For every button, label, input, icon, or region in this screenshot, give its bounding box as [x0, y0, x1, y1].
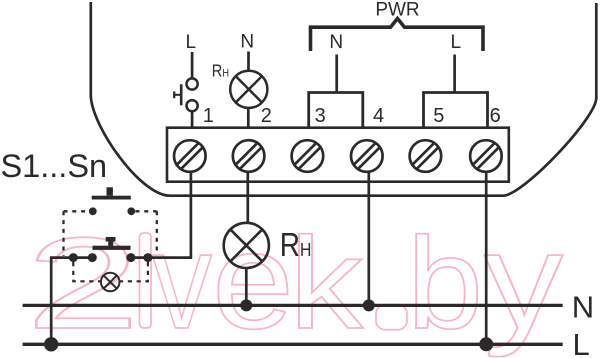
- push-button at terminal 1: cap: [173, 91, 175, 98]
- junction dot lamp tap left: [69, 253, 78, 262]
- push-button at terminal 1: bottom contact: [187, 100, 198, 111]
- terminal block: [167, 128, 509, 182]
- junction dot terminal 4 to N: [363, 299, 375, 311]
- push-button Sn: bridge bar: [93, 246, 131, 250]
- push-button Sn: left contact: [88, 253, 97, 262]
- push-button Sn: stem: [108, 242, 113, 246]
- svg-text:4: 4: [373, 105, 384, 127]
- N bus line: [23, 304, 563, 307]
- push-button at terminal 1: stem: [174, 94, 180, 96]
- svg-text:5: 5: [433, 105, 444, 127]
- svg-text:b: b: [407, 210, 483, 356]
- push-button S1: bridge bar: [92, 196, 131, 200]
- svg-text:3: 3: [315, 105, 326, 127]
- lamp Rн main: [224, 223, 269, 268]
- push-button S1: left contact: [89, 207, 97, 215]
- junction dot lamp tap right: [143, 253, 152, 262]
- push-button S1: stem: [107, 187, 113, 195]
- terminal screw 2: [233, 140, 265, 172]
- PWR bracket: [311, 19, 484, 52]
- svg-text:S1...Sn: S1...Sn: [1, 148, 108, 184]
- L bus line: [23, 343, 563, 346]
- svg-text:N: N: [240, 32, 254, 53]
- svg-text:y: y: [484, 204, 563, 358]
- wire terminal 2 to lamp: [246, 172, 249, 223]
- junction dot terminal 6 to L: [479, 337, 493, 351]
- wire button to terminal 1: [191, 111, 194, 127]
- svg-text:L: L: [573, 327, 590, 358]
- svg-text:2: 2: [26, 210, 140, 356]
- terminal screw 6: [470, 140, 502, 172]
- svg-text:L: L: [186, 32, 197, 53]
- wire N to link 3-4: [335, 55, 338, 93]
- junction dot S branch to L: [44, 337, 58, 351]
- push-button Sn: cap: [106, 237, 116, 242]
- dashed group box S1...Sn top edge: [64, 210, 157, 212]
- dashed group box right edge: [156, 211, 158, 251]
- indicator lamp in button: [101, 273, 120, 292]
- dashed lamp tap left: [73, 262, 101, 281]
- junction dot lamp to N: [240, 299, 252, 311]
- link box terminals 3-4: [309, 93, 363, 128]
- link box terminals 5-6: [424, 93, 488, 128]
- svg-text:N: N: [572, 290, 594, 325]
- wire terminal 6 to L bus: [485, 172, 488, 344]
- push-button S1: right contact: [127, 207, 135, 215]
- push-button at terminal 1: top contact: [187, 78, 198, 89]
- terminal screw 1: [174, 140, 206, 172]
- watermark 21vek.by: [26, 204, 563, 358]
- wire N to lamp: [247, 52, 250, 71]
- svg-text:v: v: [152, 204, 212, 358]
- terminal screw 4: [351, 140, 383, 172]
- svg-text:2: 2: [261, 105, 272, 127]
- wire button branch to L bus: [51, 258, 92, 345]
- dashed group box left edge: [62, 211, 64, 256]
- svg-text:RH: RH: [212, 61, 229, 80]
- wire L to link 5-6: [453, 55, 456, 93]
- svg-text:k: k: [289, 210, 364, 356]
- terminal screw 3: [292, 140, 324, 172]
- svg-text:N: N: [329, 32, 343, 53]
- wire lamp to terminal 2: [247, 108, 250, 128]
- terminal screw 5: [410, 140, 442, 172]
- wire L to button: [191, 52, 194, 78]
- svg-text:L: L: [451, 32, 462, 53]
- device body outline: [91, 2, 597, 196]
- wire terminal 4 to N bus: [367, 172, 370, 306]
- wire button branch right segment: [131, 256, 132, 259]
- wire terminal 1 down: [132, 172, 191, 258]
- push-button at terminal 1: bridge: [180, 84, 183, 105]
- push-button Sn: right contact: [126, 253, 135, 262]
- svg-text:1: 1: [203, 105, 214, 127]
- dashed lamp tap right: [120, 262, 148, 281]
- svg-text:6: 6: [490, 105, 501, 127]
- lamp Rн top: [230, 71, 267, 108]
- wire lamp to N bus: [245, 268, 248, 305]
